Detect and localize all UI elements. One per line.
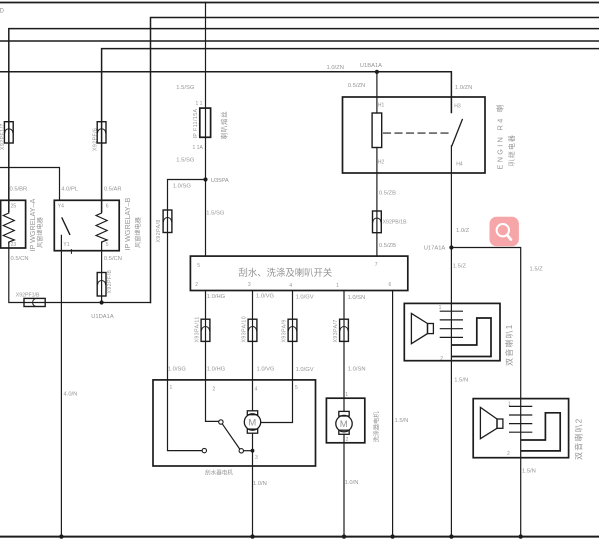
wire y167 from left edge into relay B pin Y4 <box>0 168 60 201</box>
wire node U17A1A right then down to speaker 2 then ground <box>451 248 520 537</box>
speaker 2 terminal ticks <box>510 405 532 407</box>
svg-text:U35PA: U35PA <box>211 178 229 184</box>
wire from bus B1 down to fuse IP F11/15A <box>205 3 207 257</box>
svg-text:H3: H3 <box>454 104 461 110</box>
svg-text:0.5/CN: 0.5/CN <box>104 256 122 262</box>
svg-text:1 1A: 1 1A <box>193 145 204 151</box>
node on run y302.5 <box>100 300 104 304</box>
svg-text:6: 6 <box>389 282 392 288</box>
svg-text:5: 5 <box>197 263 200 269</box>
fuse X93PA/11 <box>201 319 210 341</box>
speaker horn 2 box <box>473 399 568 458</box>
svg-text:TD: TD <box>0 9 5 15</box>
wire relay A pin 23 down, left run to node x150 (via fuse X92PF1/B) <box>9 243 151 303</box>
svg-text:1.0/N: 1.0/N <box>345 480 359 486</box>
svg-text:M: M <box>340 419 348 430</box>
bus B5 with corner down at x101.6 (feed of relay B coil) <box>102 49 599 212</box>
svg-text:IP WGRELAY–B: IP WGRELAY–B <box>123 197 132 250</box>
fuse X92PB/1B <box>373 211 382 233</box>
svg-text:双音喇叭1: 双音喇叭1 <box>504 324 514 366</box>
resistor coil of relay A <box>3 212 14 244</box>
wire node U1BA1A down to relay coil H1 <box>376 72 378 113</box>
svg-text:1.5/N: 1.5/N <box>454 377 468 383</box>
svg-text:洗涤器电机: 洗涤器电机 <box>373 411 381 443</box>
svg-text:刮水、洗涤及喇叭开关: 刮水、洗涤及喇叭开关 <box>239 267 333 278</box>
wire washer motor pin 2 to ground bus <box>343 434 345 536</box>
svg-text:H1: H1 <box>378 103 385 109</box>
dashed actuation link <box>384 132 450 134</box>
svg-text:0.5/AR: 0.5/AR <box>104 187 122 193</box>
svg-text:U17A1A: U17A1A <box>424 246 446 252</box>
coil of horn relay <box>372 113 382 148</box>
node U35PA branch left to washer feed fuse X92PA/8 <box>168 180 206 380</box>
svg-text:U1BA1A: U1BA1A <box>360 63 382 69</box>
contact circle common <box>239 449 243 453</box>
contact circle high speed <box>219 420 223 424</box>
svg-text:2: 2 <box>213 387 216 393</box>
wire switch pin 4 down <box>292 291 294 380</box>
wiper motor M: pin4 wire, caps and body <box>252 380 254 411</box>
svg-text:2: 2 <box>507 451 510 457</box>
svg-text:1.5/SG: 1.5/SG <box>206 210 225 216</box>
svg-text:1.0/ZN: 1.0/ZN <box>455 85 472 91</box>
svg-text:1: 1 <box>336 283 339 289</box>
svg-text:2: 2 <box>440 356 443 362</box>
horn relay contact blade H3-H4 <box>452 120 462 146</box>
relay A box IP WGRELAY-A <box>1 200 26 248</box>
park switch blade <box>223 424 240 449</box>
resistor coil of relay B <box>96 212 107 244</box>
node U17A1A <box>449 245 453 249</box>
bottom ground bus <box>0 536 599 538</box>
svg-text:1.5/Z: 1.5/Z <box>530 266 544 272</box>
svg-text:23: 23 <box>11 242 17 248</box>
svg-text:1.0/SG: 1.0/SG <box>168 366 187 372</box>
svg-text:M: M <box>248 418 256 429</box>
speaker horn 1 box <box>404 303 500 360</box>
svg-text:1.0/HG: 1.0/HG <box>207 366 226 372</box>
wire switch pin 3 down <box>252 291 254 380</box>
node U35PA <box>203 177 207 181</box>
svg-text:4: 4 <box>255 387 258 393</box>
svg-text:4: 4 <box>289 283 292 289</box>
wire motor pin 2 to high-speed contact <box>206 380 219 422</box>
svg-text:1.0/SN: 1.0/SN <box>348 367 366 373</box>
wire motor pin 1 to low-speed contact <box>168 380 203 451</box>
ground node speaker 2 <box>519 534 523 538</box>
svg-text:0.5/BR: 0.5/BR <box>10 187 28 193</box>
bus B6 with corner down at x451.4 into horn relay H3 <box>0 72 451 113</box>
svg-text:X92PA/8: X92PA/8 <box>156 219 162 242</box>
speaker 2 coil hook <box>521 413 560 451</box>
ground node washer motor <box>342 534 346 538</box>
wire relay B coil bottom to fuse X92PF/B <box>101 243 103 303</box>
svg-text:喇叭熔丝: 喇叭熔丝 <box>220 111 229 140</box>
contact circle low speed <box>202 448 206 452</box>
svg-text:1.0/Z: 1.0/Z <box>456 228 470 234</box>
svg-text:5: 5 <box>295 385 298 391</box>
svg-text:H4: H4 <box>456 162 463 168</box>
svg-text:H2: H2 <box>378 160 385 166</box>
svg-text:1.5/SG: 1.5/SG <box>176 85 195 91</box>
svg-text:1.0/VG: 1.0/VG <box>257 366 276 372</box>
switch box: wiper / washer / horn switch <box>190 256 407 290</box>
svg-text:X93PA/7: X93PA/7 <box>333 319 339 342</box>
svg-text:6: 6 <box>106 204 109 210</box>
svg-text:1.5/N: 1.5/N <box>522 468 536 474</box>
bus B3 with corner down at x8.8 (feed of relay A) <box>9 29 599 212</box>
fuse X92PF1/7 <box>4 122 13 143</box>
svg-text:1 1: 1 1 <box>196 101 203 107</box>
svg-text:1.0/N: 1.0/N <box>253 481 267 487</box>
wire switch pin 2 down <box>205 291 207 380</box>
svg-text:2: 2 <box>195 282 198 288</box>
fuse IP F11/15A (horn fuse) <box>200 108 211 137</box>
ground node speaker 1 <box>449 534 453 538</box>
svg-text:4.0/PL: 4.0/PL <box>61 187 79 193</box>
fuse X93PA/9 <box>288 319 297 341</box>
svg-text:0.5/ZB: 0.5/ZB <box>379 243 396 249</box>
node U1BA1A <box>375 70 379 74</box>
svg-text:0.5/ZB: 0.5/ZB <box>379 191 396 197</box>
fuse X92PF/6 <box>97 122 106 143</box>
svg-text:X92PF/B: X92PF/B <box>107 269 113 293</box>
svg-text:IP F11/15A: IP F11/15A <box>193 108 199 138</box>
svg-text:刮水器电机: 刮水器电机 <box>205 469 233 477</box>
svg-text:1: 1 <box>508 402 511 408</box>
svg-text:1.0/SG: 1.0/SG <box>173 184 192 190</box>
svg-text:1.0/GV: 1.0/GV <box>296 294 314 300</box>
svg-text:1.0/HG: 1.0/HG <box>207 294 226 300</box>
fuse X92PA/8 <box>163 210 172 233</box>
switch blade of relay B <box>62 218 70 234</box>
svg-text:7: 7 <box>375 262 378 268</box>
svg-text:Y4: Y4 <box>58 204 64 210</box>
bus B1 top supply rail <box>0 2 599 4</box>
svg-text:风窗继电器: 风窗继电器 <box>134 216 142 248</box>
svg-text:1.0/SN: 1.0/SN <box>348 295 366 301</box>
svg-text:0.5/CN: 0.5/CN <box>11 256 29 262</box>
svg-text:X93PA/9: X93PA/9 <box>281 319 287 342</box>
svg-text:0.5/ZN: 0.5/ZN <box>348 83 365 89</box>
svg-text:X92PB/1B: X92PB/1B <box>383 220 407 226</box>
svg-text:叭继电器: 叭继电器 <box>507 134 516 166</box>
horn relay box ENGIN R4 <box>343 97 486 173</box>
wire switch pin 1 down to washer motor <box>343 291 345 412</box>
svg-text:1.5/Z: 1.5/Z <box>453 264 467 270</box>
magnifier button <box>490 217 519 247</box>
washer motor box <box>326 398 364 443</box>
node wiper motor common <box>251 449 255 453</box>
svg-text:1.5/SG: 1.5/SG <box>176 158 195 164</box>
ground node switch pin 6 <box>390 534 394 538</box>
svg-text:4.0/N: 4.0/N <box>64 391 78 397</box>
wire motor pin 5 to motor body <box>261 380 293 423</box>
fuse X93PA/10 <box>248 319 257 341</box>
speaker 1 cone icon <box>411 313 427 343</box>
wire wiper motor to ground bus <box>252 433 254 536</box>
svg-text:1.0/VG: 1.0/VG <box>256 294 275 300</box>
svg-text:1.0/GV: 1.0/GV <box>296 367 314 373</box>
wire relay H4 down to node U17A1A and speaker 1 then ground <box>450 146 452 537</box>
svg-text:X93PA/11: X93PA/11 <box>194 316 200 342</box>
svg-text:1: 1 <box>345 392 348 398</box>
ground node 4.0/N <box>59 534 63 538</box>
svg-text:3: 3 <box>248 282 251 288</box>
pin tick below relay B <box>70 250 72 254</box>
svg-text:U1DA1A: U1DA1A <box>91 314 114 320</box>
fuse X92PF/B <box>97 273 106 297</box>
speaker 1 coil hook <box>452 318 491 357</box>
svg-text:X92PF1/7: X92PF1/7 <box>0 123 6 150</box>
fuse X92PF1/B horizontal <box>24 298 45 306</box>
svg-text:ENGIN R4 喇: ENGIN R4 喇 <box>495 102 504 169</box>
svg-text:双音喇叭2: 双音喇叭2 <box>573 418 583 460</box>
svg-text:2: 2 <box>346 437 349 443</box>
wire common contact to motor node <box>244 450 253 452</box>
washer motor M caps and body <box>339 411 349 416</box>
svg-text:X93PA/10: X93PA/10 <box>241 316 247 343</box>
wire coil H2 down through box to fuse X92PB/1B <box>376 148 378 257</box>
svg-text:X92PF/6: X92PF/6 <box>93 128 99 151</box>
svg-text:3: 3 <box>255 455 258 461</box>
svg-text:Y1: Y1 <box>63 242 69 248</box>
wire relay B pin Y1 down to ground bus <box>60 235 62 536</box>
svg-text:25: 25 <box>11 204 17 210</box>
svg-text:1: 1 <box>170 385 173 391</box>
svg-text:风窗继电器: 风窗继电器 <box>36 216 44 248</box>
bus B4 full width rail <box>0 40 599 42</box>
wiper motor box <box>153 380 316 466</box>
svg-text:1.5/N: 1.5/N <box>395 418 409 424</box>
svg-text:1: 1 <box>439 305 442 311</box>
svg-text:5: 5 <box>106 242 109 248</box>
relay B box IP WGRELAY-B <box>54 200 119 250</box>
speaker 1 terminal ticks <box>440 310 462 312</box>
bus B2 with corner down to lower feed (node x150) <box>151 18 599 303</box>
speaker 2 cone icon <box>480 407 497 438</box>
wire switch pin 6 down to ground bus <box>392 291 394 537</box>
fuse X93PA/7 <box>340 319 349 341</box>
ground node wiper motor <box>250 534 254 538</box>
svg-text:X92PF1/B: X92PF1/B <box>16 293 40 299</box>
svg-text:1.0/ZN: 1.0/ZN <box>327 65 344 71</box>
